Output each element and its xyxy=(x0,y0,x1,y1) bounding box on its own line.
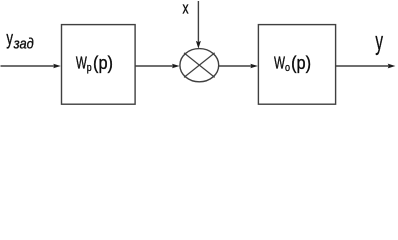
svg-text:(p): (p) xyxy=(93,52,113,73)
svg-text:(p): (p) xyxy=(291,52,311,73)
arrowhead: output y xyxy=(388,64,396,69)
svg-text:y: y xyxy=(375,28,383,56)
svg-text:W: W xyxy=(274,54,285,73)
svg-text:W: W xyxy=(76,54,87,73)
summing junction X cross stroke 1 xyxy=(184,53,215,78)
arrowhead: into W_o block xyxy=(250,64,258,69)
wire: W_p output to summing junction xyxy=(135,65,173,67)
svg-text:зад: зад xyxy=(13,34,34,51)
wire: setpoint input into W_p xyxy=(1,65,55,67)
arrowhead: into summing junction (left) xyxy=(172,64,180,69)
svg-text:y: y xyxy=(6,27,13,49)
summing junction circle xyxy=(180,49,219,82)
block W_p(p) controller rectangle xyxy=(62,25,136,105)
node label y_зад (setpoint input) xyxy=(6,27,34,52)
svg-text:p: p xyxy=(87,62,92,74)
arrowhead: input into W_p block xyxy=(53,64,61,69)
arrowhead: down into summing junction (top) xyxy=(196,41,201,49)
value label W_o(p) inside plant block xyxy=(274,52,311,74)
svg-text:о: о xyxy=(285,62,290,74)
value label W_p(p) inside controller block xyxy=(76,52,113,74)
block W_o(p) plant rectangle xyxy=(258,25,335,105)
wire: output y from W_o xyxy=(336,65,389,67)
svg-text:x: x xyxy=(183,0,190,18)
wire: summing junction to W_o xyxy=(219,65,252,67)
summing junction X cross stroke 2 xyxy=(184,53,215,78)
wire: disturbance x vertical drop xyxy=(197,1,199,42)
